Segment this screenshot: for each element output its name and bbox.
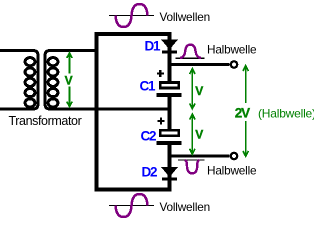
svg-text:D2: D2 — [142, 165, 158, 180]
green arrow V across C2 — [190, 114, 195, 154]
svg-text:Vollwellen: Vollwellen — [160, 200, 210, 214]
wire: secondary top lead to left bus — [45, 51, 96, 56]
svg-text:D1: D1 — [145, 39, 162, 54]
wire: bottom rail — [95, 188, 172, 192]
terminal: bottom output — [231, 153, 237, 159]
wire: top rail — [95, 32, 172, 36]
capacitor C1 — [157, 70, 182, 97]
icon: negative half wave (bottom Halbwelle) — [178, 160, 205, 173]
icon: positive half wave (top Halbwelle) — [176, 45, 205, 59]
wire: bottom output — [168, 155, 230, 158]
svg-text:(Halbwelle): (Halbwelle) — [258, 107, 314, 121]
svg-text:V: V — [65, 74, 73, 88]
wire: top output — [168, 63, 230, 66]
wire: right chain segment top rail to C1 — [168, 32, 172, 82]
svg-text:Halbwelle: Halbwelle — [207, 43, 257, 57]
svg-text:Transformator: Transformator — [9, 114, 82, 128]
green arrow 2V across output — [243, 66, 248, 157]
wire: right chain segment C2 to bottom rail — [168, 143, 172, 191]
wire: secondary bottom lead / middle wire to C1-C2 junction — [45, 104, 169, 109]
svg-text:Vollwellen: Vollwellen — [160, 10, 210, 24]
wire: primary top lead — [0, 51, 38, 56]
green arrow V across C1 — [190, 69, 195, 109]
wire: right chain segment C1 to C2 — [168, 95, 172, 131]
icon: full sine wave (bottom) — [109, 194, 154, 217]
terminal: top output — [231, 61, 237, 67]
svg-text:V: V — [195, 128, 203, 142]
capacitor C2 — [157, 118, 182, 145]
wire: left bus (secondary top terminal rail) — [95, 32, 99, 192]
diode D1 — [162, 40, 177, 52]
diode D2 — [162, 167, 177, 179]
svg-text:V: V — [195, 84, 203, 98]
wire: primary bottom lead — [0, 104, 38, 109]
svg-text:2V: 2V — [235, 106, 250, 121]
transformer secondary winding — [45, 54, 58, 107]
svg-text:C1: C1 — [140, 79, 157, 94]
transformer primary winding — [25, 54, 38, 107]
svg-text:C2: C2 — [141, 129, 157, 144]
svg-text:Halbwelle: Halbwelle — [207, 164, 257, 178]
icon: full sine wave (top) — [109, 4, 154, 27]
green arrow V across secondary — [67, 53, 72, 107]
